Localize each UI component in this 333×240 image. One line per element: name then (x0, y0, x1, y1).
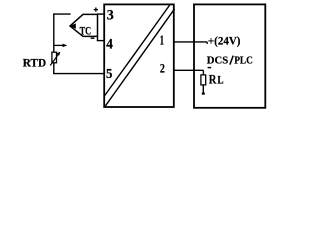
resistor RL bottom stub (202, 85, 204, 93)
wire: down to RL (202, 70, 204, 75)
svg-text:1: 1 (160, 33, 164, 48)
wire: TC- to terminal 4 (97, 40, 104, 42)
RTD body (52, 52, 57, 63)
minus label at TC (91, 37, 95, 39)
thermocouple TC tag (70, 14, 98, 36)
svg-text:4: 4 (106, 37, 113, 53)
resistor RL bottom tick (202, 92, 205, 94)
wire: TC- jog down (97, 36, 99, 40)
wire: bracket vertical (53, 14, 55, 74)
svg-text:R: R (209, 73, 217, 87)
TC tag point arrowhead (70, 23, 76, 28)
wire: bracket top arm (53, 13, 71, 15)
svg-text:TC: TC (80, 24, 92, 38)
wire: RTD bottom to terminal 5 (53, 73, 104, 75)
minus label at RL (208, 67, 212, 69)
svg-text:RTD: RTD (23, 58, 46, 70)
isolation barrier diagonal line 1 (104, 5, 170, 97)
wire: terminal 2 to RL (174, 69, 204, 71)
svg-text:3: 3 (107, 8, 114, 24)
svg-text:2: 2 (160, 61, 165, 76)
svg-text:L: L (217, 73, 223, 87)
RTD diagonal arrow (50, 54, 58, 65)
DCS/PLC box (194, 4, 265, 107)
arrow pointing at TC (3-wire hint) (54, 44, 64, 46)
resistor RL body (201, 75, 206, 85)
wire end tick (206, 42, 208, 44)
isolator/transmitter box U1 (104, 4, 174, 107)
wire: TC+ to terminal 3 (97, 13, 104, 15)
wire: terminal 1 to DCS + supply (174, 41, 207, 43)
svg-text:5: 5 (106, 66, 113, 81)
svg-text:DCS: DCS (207, 55, 229, 67)
svg-text:+(24V): +(24V) (208, 35, 241, 47)
plus label at TC (94, 9, 98, 11)
svg-text:PLC: PLC (234, 55, 253, 67)
isolation barrier diagonal line 2 (105, 9, 175, 107)
